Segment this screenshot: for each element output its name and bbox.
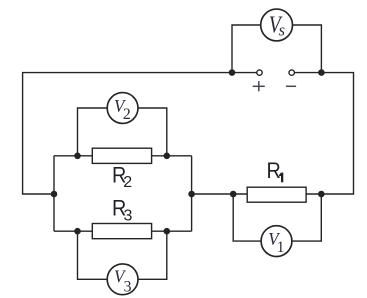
svg-text:2: 2 xyxy=(123,106,131,123)
svg-text:3: 3 xyxy=(124,278,132,295)
svg-text:1: 1 xyxy=(277,239,285,256)
svg-text:2: 2 xyxy=(123,174,132,191)
svg-text:s: s xyxy=(279,21,285,40)
svg-text:3: 3 xyxy=(124,208,133,225)
svg-text:R: R xyxy=(267,159,281,183)
